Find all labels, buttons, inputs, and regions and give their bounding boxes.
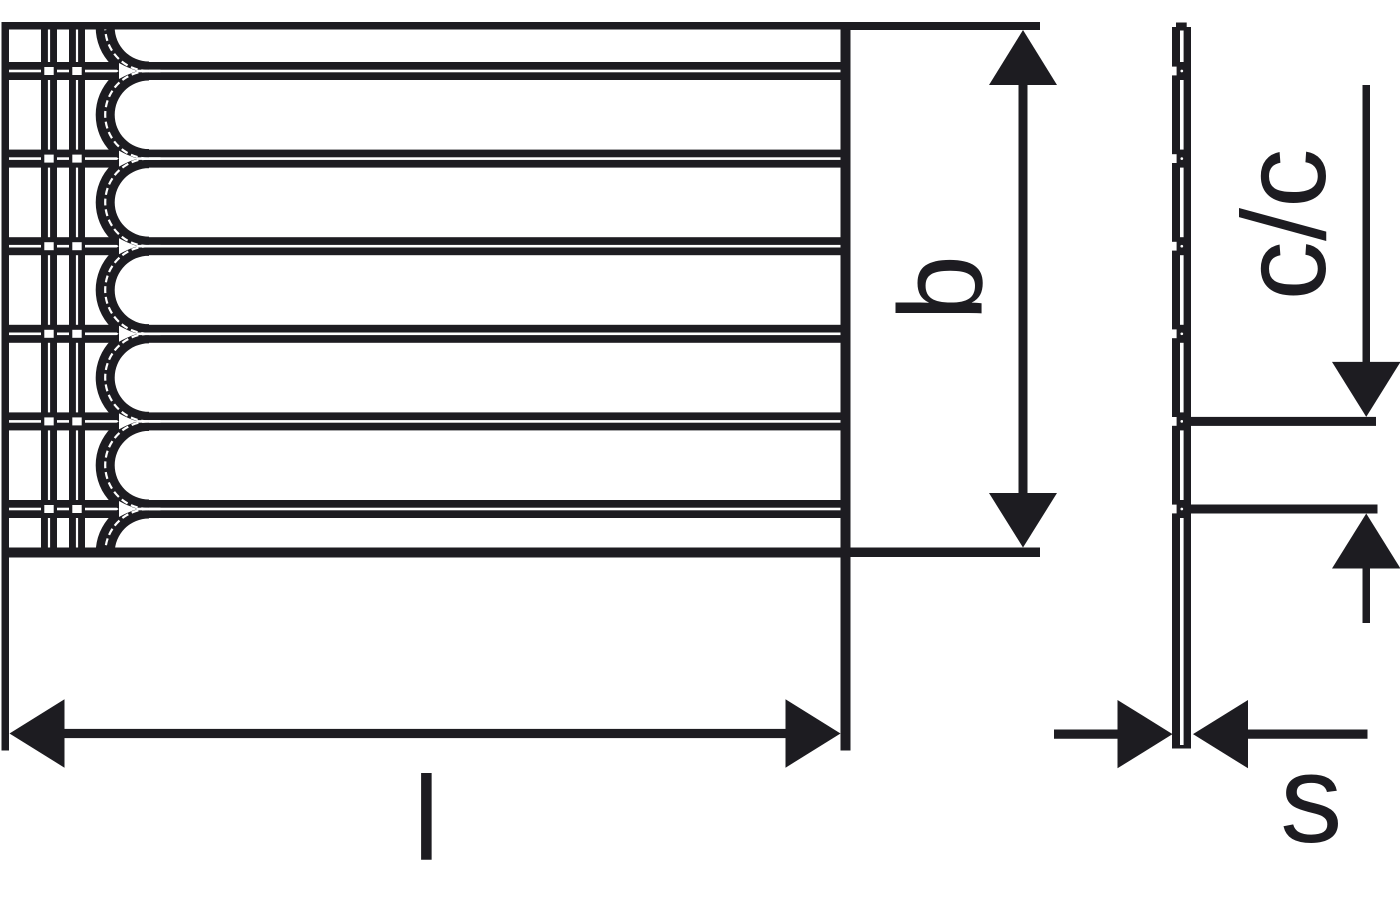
tube row 2 band [2, 150, 847, 168]
svg-text:c/c: c/c [1218, 148, 1351, 300]
tube row 5 band [2, 412, 847, 430]
header pipe A centerline [48, 30, 50, 548]
svg-text:l: l [413, 752, 440, 886]
tube row 6 band [2, 500, 847, 518]
tube row 3 band [2, 237, 847, 255]
b arrowhead bottom [989, 493, 1057, 548]
u-bend 3 [96, 149, 149, 256]
c/c extension line upper [1183, 417, 1376, 426]
junction node row 4 [44, 330, 81, 338]
side view tube notch row 3 [1172, 242, 1183, 251]
s arrowhead left [1118, 700, 1173, 768]
u-bend 7 dashed flow centerline [105, 509, 149, 597]
junction node row 5 [44, 417, 81, 425]
flow arrow wedge row 6 [119, 501, 138, 517]
tube row 4 centerline (left segment) [9, 333, 161, 336]
tube row 1 centerline (right segment) [137, 70, 844, 73]
u-bend 6 [96, 412, 149, 519]
junction node row 1 [44, 67, 81, 75]
flow arrow wedge row 3 [119, 238, 138, 254]
side view tube notch row 1 [1172, 67, 1183, 76]
header pipe A [41, 22, 57, 553]
tube row 3 centerline (right segment) [137, 245, 844, 248]
c/c dimension line lower [1363, 566, 1371, 623]
svg-text:b: b [875, 255, 1008, 321]
c/c dimension line upper [1363, 85, 1371, 364]
u-bend 7 [96, 500, 149, 607]
u-bend 1 dashed flow centerline [105, 0, 149, 71]
side view top cap [1176, 23, 1187, 28]
l arrowhead right [786, 699, 841, 767]
l dimension line [60, 729, 788, 738]
junction node row 2 [44, 155, 81, 163]
junction node row 3 [44, 242, 81, 250]
tube row 4 band [2, 325, 847, 343]
tube row 1 centerline (left segment) [9, 70, 161, 73]
side view sheet slit [1180, 31, 1184, 746]
c/c arrowhead upper [1332, 362, 1400, 417]
s arrowhead right [1193, 700, 1248, 768]
flow arrow wedge row 5 [119, 413, 138, 429]
u-bend 3 dashed flow centerline [105, 159, 149, 247]
flow arrow wedge row 4 [119, 326, 138, 342]
panel border bottom [2, 548, 851, 558]
u-bend 2 dashed flow centerline [105, 71, 149, 159]
c/c extension line lower [1184, 505, 1378, 514]
tube row 4 centerline (right segment) [137, 333, 844, 336]
tube row 1 band [2, 62, 847, 80]
panel border left + l extension line left [2, 22, 10, 751]
u-bend 6 dashed flow centerline [105, 421, 149, 509]
side view sheet body + s extension lines [1172, 27, 1191, 749]
tube row 5 centerline (right segment) [137, 420, 844, 423]
junction node row 6 [44, 505, 81, 513]
b dimension line [1019, 83, 1028, 495]
u-bend 5 [96, 324, 149, 431]
side view tube notch row 6 [1172, 505, 1183, 514]
b arrowhead top [989, 30, 1057, 85]
tube row 6 centerline (left segment) [9, 508, 161, 511]
svg-text:s: s [1280, 730, 1343, 869]
l arrowhead left [10, 699, 65, 767]
s dimension line left [1054, 730, 1119, 739]
tube row 6 centerline (right segment) [137, 508, 844, 511]
b extension line top [851, 22, 1041, 30]
u-bend 2 [96, 62, 149, 169]
side view tube notch row 5 [1172, 417, 1183, 426]
u-bend 5 dashed flow centerline [105, 334, 149, 422]
c/c arrowhead lower [1332, 514, 1400, 569]
flow arrow wedge row 1 [119, 63, 138, 79]
panel border right + l extension line right [841, 22, 851, 751]
side view tube notch row 4 [1172, 329, 1183, 338]
u-bend 4 [96, 237, 149, 344]
panel border top [2, 22, 851, 30]
b extension line bottom [851, 548, 1041, 558]
header pipe B centerline [76, 30, 78, 548]
u-bend 4 dashed flow centerline [105, 246, 149, 334]
s dimension line right [1247, 730, 1368, 739]
header pipe B [69, 22, 85, 553]
flow arrow wedge row 2 [119, 151, 138, 167]
u-bend 1 [96, 0, 149, 80]
tube row 2 centerline (left segment) [9, 157, 161, 160]
tube row 2 centerline (right segment) [137, 157, 844, 160]
tube row 3 centerline (left segment) [9, 245, 161, 248]
tube row 5 centerline (left segment) [9, 420, 161, 423]
side view tube notch row 2 [1172, 154, 1183, 163]
